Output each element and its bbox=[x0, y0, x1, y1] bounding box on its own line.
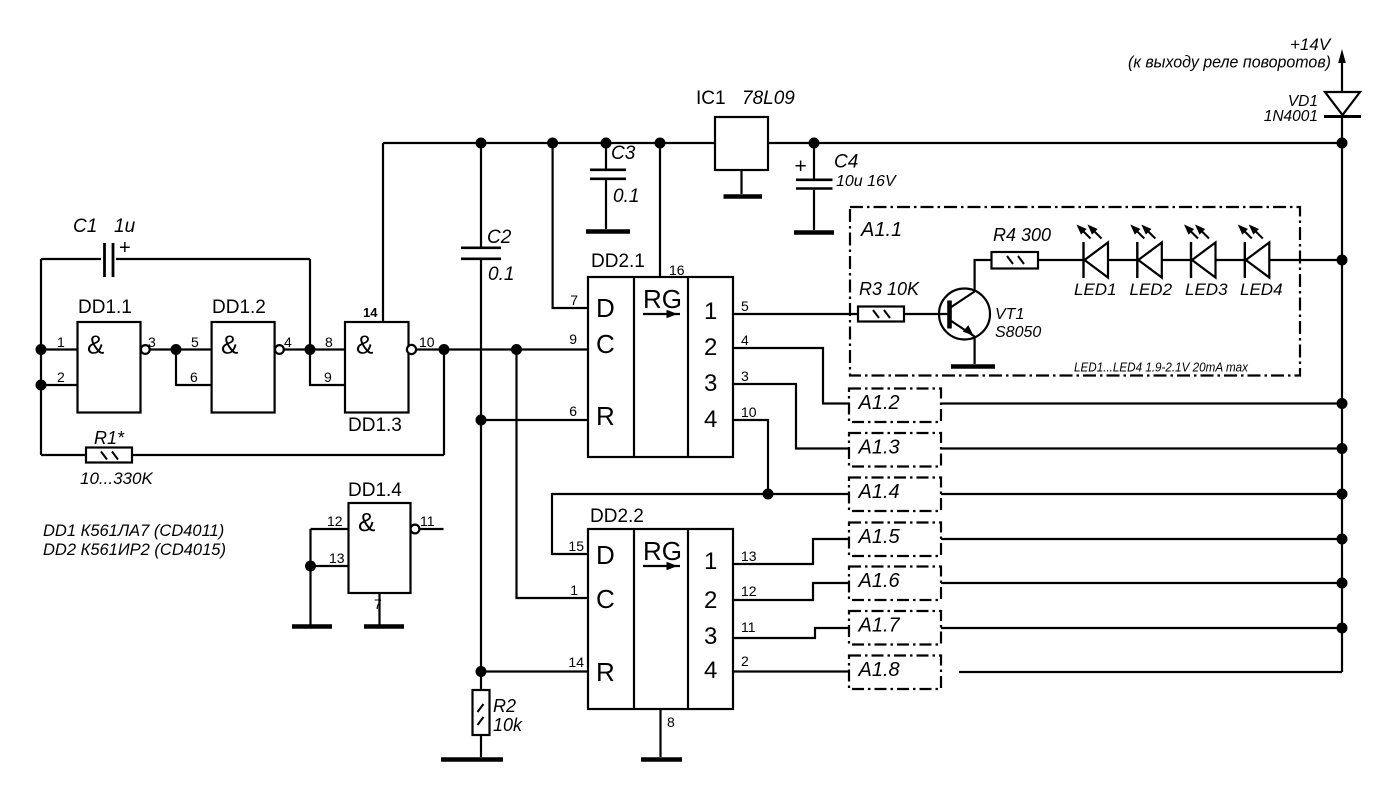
svg-text:R2: R2 bbox=[493, 696, 516, 716]
svg-text:DD1 К561ЛА7 (CD4011): DD1 К561ЛА7 (CD4011) bbox=[43, 522, 224, 540]
ground (IC1 common) bbox=[724, 194, 763, 199]
svg-text:A1.8: A1.8 bbox=[858, 659, 900, 681]
wire: C1 riser down to node between DD1.2 and DD1.3 bbox=[309, 259, 311, 350]
svg-text:13: 13 bbox=[741, 548, 757, 564]
svg-text:10k: 10k bbox=[493, 715, 523, 735]
wire A1.3 to bus bbox=[941, 447, 1342, 449]
wire A1.5 to bus bbox=[941, 538, 1342, 540]
svg-text:2: 2 bbox=[741, 653, 749, 669]
pin 11 of DD2.2 (out 3) wire to A1.7 bbox=[733, 619, 849, 638]
pin 14 of DD2.2 (R) / reset wire bbox=[481, 654, 588, 672]
wire LED3-LED4 bbox=[1216, 259, 1245, 261]
resistor R4 (300) bbox=[992, 225, 1052, 269]
node: junction LED chain / bus bbox=[1338, 256, 1347, 265]
svg-text:10: 10 bbox=[741, 404, 757, 420]
LED LED2 bbox=[1130, 226, 1173, 300]
wire LED1-LED2 bbox=[1108, 259, 1137, 261]
svg-text:A1.5: A1.5 bbox=[858, 526, 901, 548]
wire: R3 to VT1 base bbox=[904, 313, 947, 315]
svg-text:DD1.1: DD1.1 bbox=[78, 297, 132, 318]
node: rail junction pin16 riser bbox=[656, 139, 665, 148]
module A1.6 (dash-dot box) bbox=[849, 567, 941, 601]
node: junction pin1 bbox=[37, 345, 46, 354]
wire: emitter to ground bbox=[973, 337, 975, 365]
svg-text:3: 3 bbox=[741, 368, 749, 384]
pin 4 of DD1.2 / wire to DD1.3 bbox=[284, 334, 345, 350]
svg-text:+: + bbox=[795, 155, 807, 178]
svg-text:+14V: +14V bbox=[1290, 35, 1332, 54]
svg-text:3: 3 bbox=[704, 623, 717, 650]
wire: riser from node down to DD2.2 pin C bbox=[517, 350, 589, 599]
svg-text:14: 14 bbox=[568, 654, 584, 670]
pin 5 of DD2.1 (out 1) wire to R3 bbox=[733, 298, 858, 314]
capacitor C2 (0.1) bbox=[461, 143, 514, 690]
transistor VT1 (S8050, NPN) bbox=[939, 289, 1041, 342]
pin 11 of DD1.4 (open stub) bbox=[419, 513, 443, 529]
svg-text:12: 12 bbox=[741, 583, 757, 599]
svg-text:LED4: LED4 bbox=[1240, 280, 1283, 299]
svg-text:S8050: S8050 bbox=[995, 324, 1041, 341]
svg-text:DD2.2: DD2.2 bbox=[590, 506, 644, 527]
svg-text:2: 2 bbox=[704, 587, 717, 614]
ground (DD1.4 inputs) bbox=[292, 624, 332, 629]
node: rail junction VD1 bus bbox=[1338, 139, 1347, 148]
node +14V (supply arrow) bbox=[1128, 35, 1346, 92]
svg-text:13: 13 bbox=[329, 550, 345, 566]
svg-text:10: 10 bbox=[419, 334, 435, 350]
wire LED4 to +14V bus bbox=[1269, 259, 1342, 261]
wire A1.8 to bus bbox=[959, 671, 1342, 673]
wire: R4 to LED1 bbox=[1038, 259, 1084, 261]
node: junction C2/R reset DD2.1 bbox=[477, 416, 486, 425]
svg-text:&: & bbox=[87, 330, 104, 360]
ground (DD1.4 pin 7) bbox=[364, 624, 404, 629]
node: junction A1.3 / bus bbox=[1338, 444, 1347, 453]
svg-text:D: D bbox=[596, 540, 615, 570]
svg-text:1: 1 bbox=[704, 548, 717, 575]
voltage regulator IC1 78L09 bbox=[696, 88, 795, 194]
svg-text:A1.4: A1.4 bbox=[858, 481, 900, 503]
svg-text:LED1: LED1 bbox=[1074, 280, 1117, 299]
svg-text:C: C bbox=[596, 584, 615, 614]
wire: riser from output node down to R1 bbox=[443, 350, 445, 456]
wire A1.7 to bus bbox=[941, 627, 1342, 629]
svg-text:9: 9 bbox=[324, 369, 332, 385]
svg-text:7: 7 bbox=[374, 596, 382, 612]
node: junction pin2 bbox=[37, 381, 46, 390]
wire: jog to pin 6 of DD1.2 bbox=[176, 350, 212, 386]
wire: jog to pin 9 of DD1.3 bbox=[310, 350, 345, 386]
wire LED2-LED3 bbox=[1162, 259, 1191, 261]
pin 10 of DD2.1 (out 4) wire down bbox=[733, 404, 768, 494]
capacitor C4 (10u 16V) bbox=[795, 143, 897, 230]
pin 8 of DD1.3 bbox=[325, 334, 333, 350]
wire: left vertical bus to pins 1,2 and R1 bbox=[40, 259, 42, 455]
svg-text:IC1: IC1 bbox=[696, 88, 726, 109]
svg-text:1N4001: 1N4001 bbox=[1264, 108, 1318, 125]
svg-text:DD1.3: DD1.3 bbox=[348, 415, 402, 436]
node: junction A1.6 / bus bbox=[1338, 579, 1347, 588]
pin 3 of DD1.1 / wire to DD1.2 bbox=[148, 334, 212, 350]
ground (R2 bottom) bbox=[441, 757, 503, 762]
pin 9 of DD2.1 (C) bbox=[569, 331, 577, 347]
svg-text:DD1.2: DD1.2 bbox=[212, 297, 266, 318]
svg-text:1: 1 bbox=[57, 334, 65, 350]
note: part list text bbox=[43, 522, 226, 559]
svg-text:4: 4 bbox=[704, 406, 717, 433]
module A1.7 (dash-dot box) bbox=[849, 611, 941, 645]
pin 3 of DD2.1 (out 3) wire to A1.3 bbox=[733, 368, 849, 449]
svg-text:2: 2 bbox=[704, 334, 717, 361]
svg-text:R: R bbox=[596, 657, 615, 687]
svg-text:A1.2: A1.2 bbox=[858, 392, 900, 414]
op-amp/gate DD1.1 (NAND &) bbox=[78, 297, 150, 413]
pin 2 of DD1.1 bbox=[41, 369, 78, 385]
svg-text:A1.1: A1.1 bbox=[860, 219, 902, 241]
svg-text:0.1: 0.1 bbox=[488, 264, 514, 285]
svg-text:R4 300: R4 300 bbox=[993, 225, 1051, 245]
pin 6 of DD2.1 (R) / reset wire bbox=[481, 403, 588, 420]
svg-text:9: 9 bbox=[569, 331, 577, 347]
LED LED4 bbox=[1239, 226, 1283, 300]
diode VD1 (1N4001) bbox=[1264, 92, 1361, 125]
pin 10 of DD1.3 / output wire to DD2.1 pin C bbox=[416, 334, 588, 350]
svg-text:LED2: LED2 bbox=[1130, 280, 1173, 299]
module A1.2 (dash-dot box) bbox=[849, 389, 941, 423]
svg-text:6: 6 bbox=[569, 403, 577, 419]
pin 9 of DD1.3 bbox=[324, 369, 332, 385]
svg-text:R1*: R1* bbox=[94, 428, 125, 448]
wire A1.4 to bus bbox=[941, 493, 1342, 495]
resistor R2 (10k) bbox=[473, 690, 524, 757]
svg-text:8: 8 bbox=[667, 714, 675, 730]
wire: A1.4 line and branch to DD2.2 pin D bbox=[552, 494, 849, 554]
svg-text:7: 7 bbox=[570, 292, 578, 308]
pin 12 of DD1.4 bbox=[311, 513, 349, 529]
LED LED1 bbox=[1074, 226, 1117, 300]
shift register DD2.2 (RG) bbox=[588, 506, 733, 709]
svg-text:1: 1 bbox=[570, 582, 578, 598]
pin 1 of DD2.2 (C) bbox=[570, 582, 578, 598]
svg-text:4: 4 bbox=[741, 332, 749, 348]
svg-text:4: 4 bbox=[284, 334, 292, 350]
svg-text:&: & bbox=[221, 330, 238, 360]
pin 13 of DD1.4 bbox=[311, 550, 349, 566]
node: junction C1 / pins 8,9 bbox=[306, 345, 315, 354]
node: rail junction pin7 riser bbox=[548, 139, 557, 148]
ground (VT1 emitter) bbox=[951, 364, 995, 369]
pin 5 of DD1.2 bbox=[191, 334, 199, 350]
node: junction out4 / A1.4 wire bbox=[764, 490, 773, 499]
svg-text:VT1: VT1 bbox=[995, 306, 1024, 323]
svg-text:DD1.4: DD1.4 bbox=[348, 480, 402, 501]
ground (C3 bottom) bbox=[586, 229, 630, 234]
pin 1 of DD1.1 bbox=[41, 334, 78, 350]
svg-text:C1: C1 bbox=[73, 216, 97, 237]
svg-text:A1.6: A1.6 bbox=[858, 570, 901, 592]
node: rail junction C2 bbox=[477, 139, 486, 148]
node: junction to R1 riser bbox=[440, 345, 449, 354]
module A1.5 (dash-dot box) bbox=[849, 523, 941, 557]
node: junction to DD2.2 C riser bbox=[512, 345, 521, 354]
svg-text:R: R bbox=[596, 401, 615, 431]
svg-text:78L09: 78L09 bbox=[742, 88, 795, 109]
svg-text:&: & bbox=[358, 507, 375, 537]
wire: collector riser to R4 bbox=[975, 260, 992, 292]
node: junction A1.4 / bus bbox=[1338, 490, 1347, 499]
svg-text:10u 16V: 10u 16V bbox=[836, 173, 897, 190]
pin 2 of DD2.2 (out 4) wire to A1.8 bbox=[733, 653, 849, 672]
svg-text:0.1: 0.1 bbox=[613, 186, 639, 207]
module A1.3 (dash-dot box) bbox=[849, 433, 941, 467]
svg-text:4: 4 bbox=[704, 657, 717, 684]
resistor R1* (10...330K) bbox=[41, 428, 444, 488]
svg-text:12: 12 bbox=[327, 513, 343, 529]
svg-text:5: 5 bbox=[741, 298, 749, 314]
svg-text:D: D bbox=[596, 293, 615, 323]
gate DD1.4 (NAND &, unused) bbox=[348, 480, 419, 593]
svg-text:(к выходу реле поворотов): (к выходу реле поворотов) bbox=[1128, 53, 1331, 72]
svg-text:1u: 1u bbox=[114, 216, 136, 237]
svg-text:11: 11 bbox=[741, 619, 756, 635]
pin 4 of DD2.1 (out 2) wire to A1.2 bbox=[733, 332, 849, 404]
pin 6 of DD1.2 bbox=[190, 369, 198, 385]
svg-text:RG: RG bbox=[643, 536, 682, 566]
wire: +9V top supply rail bbox=[383, 142, 1342, 144]
gate DD1.2 (NAND &) bbox=[212, 297, 284, 413]
pin 15 of DD2.2 (D) bbox=[568, 538, 584, 554]
capacitor C3 (0.1) bbox=[590, 143, 639, 229]
svg-text:DD2 К561ИР2 (CD4015): DD2 К561ИР2 (CD4015) bbox=[43, 541, 226, 559]
pin 7 of DD2.1 (D) bbox=[570, 292, 578, 308]
pin 8 of DD2.2 (GND) bbox=[661, 709, 676, 757]
svg-text:6: 6 bbox=[190, 369, 198, 385]
pin 12 of DD2.2 (out 2) wire to A1.6 bbox=[733, 583, 849, 600]
svg-text:A1.7: A1.7 bbox=[858, 615, 901, 637]
module A1.8 (dash-dot box) bbox=[849, 656, 941, 690]
wire: right vertical +14V bus bbox=[1341, 117, 1343, 673]
svg-text:DD2.1: DD2.1 bbox=[591, 251, 645, 272]
svg-text:A1.3: A1.3 bbox=[858, 437, 900, 459]
svg-text:RG: RG bbox=[643, 284, 682, 314]
capacitor C1 (1u) bbox=[41, 216, 310, 277]
svg-text:C: C bbox=[596, 329, 615, 359]
wire: grounded input riser of DD1.4 bbox=[309, 529, 311, 625]
svg-text:1: 1 bbox=[704, 298, 717, 325]
node: rail junction C3 bbox=[602, 139, 611, 148]
svg-text:10...330K: 10...330K bbox=[80, 469, 153, 488]
svg-text:LED1...LED4 1.9-2.1V 20mA max: LED1...LED4 1.9-2.1V 20mA max bbox=[1074, 360, 1248, 375]
pin 16 of DD2.1 (VCC) bbox=[669, 262, 685, 278]
resistor R3 (10K) bbox=[858, 279, 920, 322]
gate DD1.3 (NAND &) bbox=[345, 322, 416, 436]
node: junction pins 12/13 bbox=[306, 562, 315, 571]
module A1.1 (dash-dot boundary) bbox=[850, 207, 1300, 376]
svg-text:C4: C4 bbox=[834, 152, 858, 173]
svg-text:&: & bbox=[356, 330, 373, 360]
node: junction A1.7 / bus bbox=[1338, 624, 1347, 633]
pin 14 of DD1.3 (VCC riser from top rail) bbox=[363, 143, 383, 322]
ground (C4 bottom) bbox=[794, 230, 834, 235]
wire A1.2 to bus bbox=[941, 402, 1342, 404]
svg-text:8: 8 bbox=[325, 334, 333, 350]
svg-text:15: 15 bbox=[568, 538, 584, 554]
wire: riser from rail to DD2.1 pin 16 bbox=[659, 143, 661, 277]
svg-text:3: 3 bbox=[148, 334, 156, 350]
svg-text:3: 3 bbox=[704, 370, 717, 397]
node: junction A1.5 / bus bbox=[1338, 535, 1347, 544]
svg-text:14: 14 bbox=[363, 305, 378, 320]
shift register DD2.1 (RG) bbox=[588, 251, 733, 457]
svg-text:C3: C3 bbox=[611, 143, 636, 164]
svg-text:11: 11 bbox=[420, 513, 435, 529]
svg-text:+: + bbox=[119, 237, 131, 259]
node: junction pins 5/6 bbox=[172, 345, 181, 354]
pin 7 of DD1.4 (GND) bbox=[374, 593, 382, 625]
ground (DD2.2 pin 8) bbox=[641, 757, 682, 762]
svg-text:LED3: LED3 bbox=[1185, 280, 1228, 299]
svg-text:16: 16 bbox=[669, 262, 685, 278]
LED LED3 bbox=[1185, 226, 1228, 300]
module A1.4 (dash-dot box) bbox=[849, 478, 941, 512]
node: junction A1.2 / bus bbox=[1338, 399, 1347, 408]
svg-text:C2: C2 bbox=[487, 227, 512, 248]
node: junction C2/R reset DD2.2 bbox=[477, 667, 486, 676]
pin 13 of DD2.2 (out 1) wire to A1.5 bbox=[733, 539, 849, 564]
node: rail junction C4 bbox=[810, 139, 819, 148]
svg-text:R3 10K: R3 10K bbox=[859, 279, 920, 299]
svg-text:2: 2 bbox=[57, 369, 65, 385]
svg-text:5: 5 bbox=[191, 334, 199, 350]
wire A1.6 to bus bbox=[941, 582, 1342, 584]
wire: riser from rail to DD2.1 pin D bbox=[553, 143, 588, 308]
